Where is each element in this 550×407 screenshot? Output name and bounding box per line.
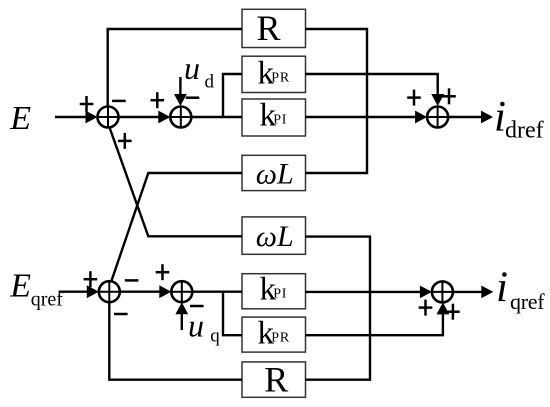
sign plus at S4 input xyxy=(84,271,98,287)
summing junction S1 xyxy=(98,107,119,128)
sign plus at S1 input xyxy=(80,96,94,112)
sign plus at S6 bottom xyxy=(446,304,460,320)
svg-text:PR: PR xyxy=(271,71,290,86)
svg-text:qref: qref xyxy=(510,289,545,314)
sign minus at S1 top xyxy=(112,100,126,103)
wire S4 drop to R bottom input path xyxy=(109,302,242,380)
label u_d xyxy=(184,50,215,93)
wire S4 to S5 xyxy=(120,291,165,293)
sign plus at S1 bottom xyxy=(118,133,132,149)
svg-text:qref: qref xyxy=(31,289,64,311)
sign plus at S2 input xyxy=(151,92,165,108)
summing junction S5 xyxy=(171,281,192,302)
wire u_d arrow into S2 xyxy=(179,77,181,100)
gain block kPR (top) xyxy=(242,55,306,92)
sign minus at S2 top xyxy=(186,96,200,99)
sign minus at S5 bottom xyxy=(190,305,204,308)
arrowhead u_d down into S2 xyxy=(174,94,187,106)
summing junction S4 xyxy=(99,281,120,302)
label i_dref xyxy=(494,94,544,144)
gain block kPR (bottom) xyxy=(242,316,306,353)
svg-text:R: R xyxy=(257,8,281,48)
wire S3 output to i_dref xyxy=(448,116,486,118)
gain block wL (bottom) xyxy=(242,217,306,254)
arrowhead u_q up into S5 xyxy=(175,302,188,314)
arrowhead into summing junction S3 xyxy=(415,111,427,124)
svg-text:u: u xyxy=(184,50,200,86)
label u_q xyxy=(188,307,220,346)
svg-text:q: q xyxy=(210,326,220,347)
svg-text:u: u xyxy=(188,307,204,343)
wire S1 riser to R top input path xyxy=(108,29,242,107)
arrowhead up into S6 bottom xyxy=(437,302,450,314)
wire E input xyxy=(55,116,90,118)
svg-text:E: E xyxy=(9,100,31,137)
summing junction S6 xyxy=(432,281,453,302)
label i_qref xyxy=(496,264,545,314)
gain block R (bottom) xyxy=(242,360,306,400)
sign plus at S5 input xyxy=(156,264,170,280)
svg-text:R: R xyxy=(264,360,288,400)
svg-text:d: d xyxy=(205,72,215,93)
wire wL bottom output diagonal to S1 (cross-coupling) xyxy=(109,127,242,236)
svg-text:ωL: ωL xyxy=(256,158,294,191)
arrowhead into summing junction S5 xyxy=(159,285,171,298)
arrowhead output i_dref xyxy=(481,111,493,124)
wire S5 to kPI bottom xyxy=(192,291,242,293)
wire S6 output to i_qref xyxy=(453,291,486,293)
wire kPI bottom output to S6 xyxy=(306,291,426,293)
sign plus at S3 input xyxy=(407,90,421,106)
gain block kPI (bottom) xyxy=(242,271,306,308)
wire kPR bottom output up into S6 xyxy=(306,308,443,335)
wire wL top output diagonal to S4 (cross-coupling) xyxy=(111,173,242,281)
wire u_q arrow into S5 xyxy=(181,308,183,330)
svg-text:E: E xyxy=(9,267,31,304)
summing junction S2 xyxy=(170,107,191,128)
arrowhead into summing junction S6 xyxy=(420,286,432,299)
gain block kPI (top) xyxy=(242,98,306,136)
arrowhead output i_qref xyxy=(481,286,493,299)
wire kPI top output to S3 xyxy=(306,116,421,118)
wire S1 to S2 xyxy=(119,116,165,118)
sign minus at S4 top xyxy=(125,279,139,282)
sign plus at S6 input xyxy=(419,300,433,316)
summing junction S3 xyxy=(427,107,448,128)
svg-text:PI: PI xyxy=(273,287,287,302)
wire R bottom right to wL bottom right via vertical xyxy=(306,237,371,380)
arrowhead into summing junction S4 xyxy=(87,285,99,298)
arrowhead down into S3 top xyxy=(431,94,444,106)
wire R top right to wL top right via vertical xyxy=(306,29,368,173)
svg-text:PR: PR xyxy=(271,331,290,346)
gain block wL (top) xyxy=(242,155,306,190)
wire S2 to kPI top xyxy=(191,116,242,118)
wire kPR top output down into S3 xyxy=(306,74,438,100)
gain block R (top) xyxy=(242,8,306,48)
label E_qref xyxy=(9,267,63,310)
arrowhead into summing junction S1 xyxy=(86,111,98,124)
svg-text:ωL: ωL xyxy=(256,220,294,253)
sign minus at S4 bottom xyxy=(114,313,128,316)
arrowhead into summing junction S2 xyxy=(158,111,170,124)
wire E_qref input xyxy=(59,291,92,293)
svg-text:i: i xyxy=(496,264,508,311)
svg-text:PI: PI xyxy=(273,113,287,128)
sign plus at S3 top xyxy=(442,88,456,104)
wire branch to kPR top xyxy=(223,74,242,117)
svg-text:dref: dref xyxy=(505,118,544,144)
wire branch to kPR bottom xyxy=(223,292,242,336)
